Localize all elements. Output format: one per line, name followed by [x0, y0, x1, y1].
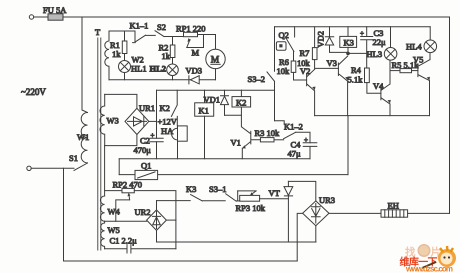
switch S3-2 — [267, 27, 275, 90]
resistor R7 — [314, 27, 316, 48]
svg-text:C1 2.2μ: C1 2.2μ — [110, 236, 138, 246]
switch S2 arm — [155, 31, 164, 37]
wire RP2 right lead — [134, 191, 176, 249]
svg-text:V5: V5 — [413, 54, 423, 64]
capacitor C2 — [150, 138, 163, 141]
wire secondary stack left — [104, 146, 106, 196]
capacitor C3 — [361, 27, 373, 68]
diode VD1 — [221, 90, 229, 115]
wire VT anode link — [288, 181, 315, 201]
lamp HL3 — [390, 27, 392, 48]
svg-text:W1: W1 — [77, 132, 89, 142]
wire ground rail 1 — [119, 158, 310, 160]
thermal switch Q2 — [286, 27, 295, 52]
svg-text:HL1: HL1 — [131, 64, 147, 74]
RP2 wiper arrow — [128, 194, 131, 200]
svg-text:V1: V1 — [231, 138, 241, 148]
diode VD2 — [325, 27, 348, 53]
secondary winding W2 — [105, 31, 109, 80]
wire W3 loop bottom — [105, 135, 137, 146]
svg-text:+12V: +12V — [158, 117, 178, 127]
wire R2 to HL2 — [172, 58, 174, 65]
relay contact K2 switch — [171, 90, 177, 116]
wire W2 box bottom edge — [109, 79, 216, 81]
diode VD3 — [189, 76, 199, 84]
wire S2 to RP1 — [164, 35, 184, 37]
wire common emitter rail — [315, 115, 430, 117]
svg-text:S3–2: S3–2 — [248, 74, 265, 84]
RP1 wiper link wire — [187, 36, 204, 48]
svg-text:T: T — [95, 27, 101, 37]
svg-text:R7: R7 — [300, 48, 310, 58]
wire RP3 to VT gate — [260, 198, 289, 200]
wire ground link — [118, 159, 120, 175]
potentiometer RP3 — [240, 195, 260, 201]
wire +12V bus — [157, 89, 275, 91]
relay coil K2 — [240, 90, 242, 96]
svg-text:K3: K3 — [344, 37, 354, 47]
svg-text:K1: K1 — [199, 106, 209, 116]
svg-text:Q2: Q2 — [279, 30, 289, 40]
wire amp supply top edge — [275, 26, 431, 28]
wire R5 to V5 base — [412, 70, 418, 72]
wire mains neutral drop — [63, 168, 65, 261]
resistor R3 — [260, 138, 274, 142]
svg-text:~220V: ~220V — [21, 87, 46, 97]
svg-text:W3: W3 — [107, 116, 119, 126]
svg-text:V4: V4 — [373, 81, 384, 91]
svg-text:www.dzsc.com: www.dzsc.com — [405, 265, 453, 273]
svg-text:UR2: UR2 — [135, 207, 151, 217]
svg-text:47μ: 47μ — [288, 149, 302, 159]
wire K1 to ground rail — [204, 116, 206, 159]
svg-text:K1–2: K1–2 — [284, 122, 303, 132]
wire S3-2 branch down — [274, 90, 276, 121]
wire UR3 left vertex to mains — [297, 213, 302, 261]
wire UR2 minus drop — [157, 230, 317, 242]
transistor V4 — [381, 60, 390, 116]
potentiometer RP1 — [184, 32, 198, 36]
secondary winding W5 — [101, 221, 105, 249]
svg-text:W4: W4 — [108, 207, 121, 217]
wire HA to ground rail — [176, 116, 178, 158]
wire gate bus — [157, 200, 191, 202]
svg-text:RP1 220: RP1 220 — [176, 24, 206, 34]
relay coil K3 — [347, 27, 349, 37]
lamp HL4 — [429, 27, 431, 40]
svg-text:K2: K2 — [160, 103, 170, 113]
resistor R4 — [365, 68, 370, 83]
resistor R1 — [124, 31, 126, 41]
thyristor VT — [284, 181, 293, 242]
svg-text:VD2: VD2 — [316, 31, 326, 48]
wire UR1 plus output — [149, 120, 157, 122]
terminal L2 (mains neutral) — [27, 166, 31, 170]
svg-text:R3 10k: R3 10k — [255, 128, 281, 138]
wire EH to right rail — [408, 212, 450, 214]
relay contact K1-1 — [133, 31, 146, 43]
wire RP1 to motor — [198, 35, 216, 50]
potentiometer RP2 — [105, 190, 122, 192]
svg-text:Q1: Q1 — [141, 161, 151, 171]
wire junction to C3/R4 branch — [348, 52, 367, 54]
wire K1-1 to S2 — [146, 34, 156, 36]
svg-text:5.1k: 5.1k — [348, 75, 364, 85]
RP1 wiper arrow — [187, 39, 190, 47]
watermark row1 find-IC — [405, 244, 441, 259]
wire W4/W5 tap to UR2 — [105, 220, 147, 222]
capacitor C1 — [105, 245, 176, 253]
bridge rectifier UR2 — [147, 210, 167, 231]
watermark mascot — [422, 246, 456, 268]
svg-text:W5: W5 — [108, 225, 120, 235]
svg-text:K1–1: K1–1 — [130, 21, 149, 31]
svg-text:K2: K2 — [236, 97, 246, 107]
svg-text:EH: EH — [388, 201, 399, 211]
relay contact K1-2 — [275, 121, 296, 139]
wire S3-1 to RP3 — [236, 200, 240, 202]
svg-text:1k: 1k — [162, 51, 171, 61]
wire motor to bottom edge — [215, 69, 217, 80]
wire HL1 to bottom — [124, 73, 126, 80]
svg-text:VD1: VD1 — [204, 95, 221, 105]
wire W2 box top edge — [109, 30, 135, 32]
wire ground rail 2 — [119, 174, 348, 176]
relay contact K3 switch — [191, 195, 203, 201]
resistor R6 — [293, 51, 295, 61]
svg-text:HA: HA — [161, 126, 174, 136]
svg-text:1k: 1k — [112, 49, 121, 59]
svg-text:S3–1: S3–1 — [209, 184, 226, 194]
wire terminal L2 to S1 — [31, 167, 74, 169]
svg-text:+: + — [304, 136, 308, 144]
thermostat Q1 — [135, 170, 158, 179]
svg-text:VT: VT — [269, 188, 281, 198]
wire R1 to HL1 — [124, 54, 126, 61]
wire R4 to V4 base — [367, 83, 381, 94]
transformer core — [98, 38, 101, 250]
svg-text:V3: V3 — [327, 58, 337, 68]
wire R6 to V2 base — [294, 72, 307, 80]
wire R3 to K1-2 — [274, 139, 284, 141]
lamp HL1 — [119, 61, 131, 73]
buzzer HA — [178, 126, 188, 141]
svg-text:S2: S2 — [157, 22, 166, 32]
switch S3-1 — [226, 194, 237, 201]
right rail wire — [449, 17, 451, 213]
svg-text:10k: 10k — [297, 58, 311, 68]
wire drop to W1 primary — [82, 17, 88, 113]
bridge rectifier UR1 — [125, 108, 149, 134]
wire K1-2 to C4 — [296, 132, 310, 143]
lamp HL2 — [167, 64, 179, 76]
secondary winding W3 — [100, 94, 105, 145]
svg-text:HL4: HL4 — [406, 41, 422, 51]
svg-text:UR1: UR1 — [139, 103, 155, 113]
svg-text:RP2 470: RP2 470 — [113, 180, 143, 190]
svg-text:+: + — [151, 132, 155, 140]
svg-text:22μ: 22μ — [373, 37, 387, 47]
wire +12V rail — [156, 90, 158, 159]
wire UR3 bottom vertex — [315, 226, 317, 242]
svg-text:S1: S1 — [69, 153, 78, 163]
wire HL2 to bottom — [172, 76, 174, 80]
terminal L1 (mains live) — [29, 15, 33, 19]
switch S1 arm — [74, 163, 88, 171]
resistor R2 — [172, 37, 174, 46]
node V3 collector junction — [346, 52, 350, 56]
relay coil K1 — [195, 103, 214, 116]
svg-text:R4: R4 — [351, 65, 362, 75]
svg-text:VD3: VD3 — [186, 66, 203, 76]
transformer primary winding W1 — [81, 113, 87, 163]
RP2 wiper wire — [116, 200, 130, 221]
wire K3 to S3-1 — [202, 200, 225, 202]
svg-text:RP3 10k: RP3 10k — [236, 203, 266, 213]
svg-text:K3: K3 — [186, 184, 196, 194]
svg-text:UR3: UR3 — [319, 195, 335, 205]
wire UR2 right vertex link — [166, 219, 176, 221]
wire W3 loop top — [105, 94, 137, 108]
svg-text:+: + — [360, 30, 364, 38]
wire K1 coil riser — [204, 90, 206, 103]
svg-text:470μ: 470μ — [134, 145, 152, 155]
resistor R5 — [390, 70, 400, 72]
svg-text:10k: 10k — [277, 66, 291, 76]
capacitor C4 — [303, 143, 317, 159]
fuse FU 5A — [48, 14, 63, 20]
bridge rectifier UR3 — [303, 201, 329, 226]
svg-text:HL3: HL3 — [367, 49, 383, 59]
svg-text:M: M — [192, 48, 200, 58]
wire K2 coil to VD1 link — [225, 107, 242, 115]
heating element EH — [381, 210, 408, 217]
wire R7 to V3 base — [315, 60, 339, 70]
transistor V3 — [338, 56, 347, 116]
svg-text:HL2: HL2 — [150, 64, 167, 74]
transistor V2 — [307, 69, 315, 115]
wire top rail (fuse to top-right corner) — [63, 16, 450, 18]
svg-text:FU 5A: FU 5A — [43, 5, 67, 15]
wire UR2 plus output riser — [156, 201, 158, 210]
motor M1 — [206, 49, 225, 68]
wire emitter-rail drop — [347, 116, 349, 175]
wire mains bottom rail — [64, 260, 298, 262]
secondary winding W4 — [100, 196, 104, 221]
wire UR3 right vertex to EH — [329, 212, 381, 214]
transistor V5 — [418, 53, 430, 116]
wire terminal L1 to fuse — [34, 16, 48, 18]
transistor V1 — [241, 115, 260, 159]
